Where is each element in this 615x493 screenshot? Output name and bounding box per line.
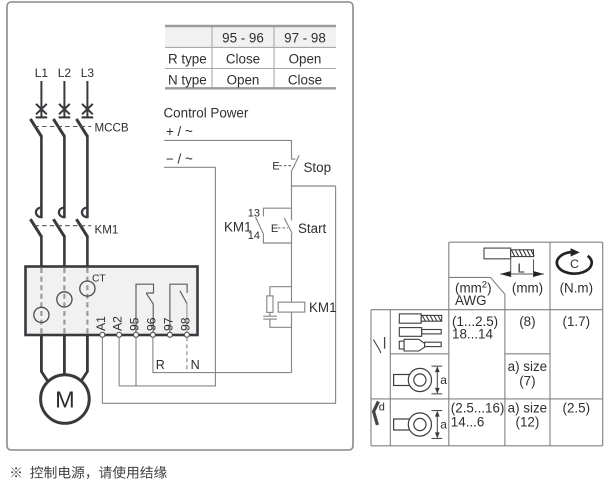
svg-text:14...6: 14...6: [451, 414, 485, 429]
svg-text:+ / ~: + / ~: [166, 124, 193, 139]
svg-text:Control Power: Control Power: [164, 106, 249, 121]
svg-text:Open: Open: [289, 52, 322, 67]
svg-text:L1: L1: [35, 66, 49, 80]
svg-text:13: 13: [248, 208, 260, 220]
svg-text:Open: Open: [227, 73, 260, 88]
svg-text:CT: CT: [92, 273, 106, 284]
svg-text:− / ~: − / ~: [166, 151, 193, 166]
svg-text:AWG: AWG: [455, 293, 487, 308]
svg-text:C: C: [570, 257, 579, 271]
svg-text:(7): (7): [519, 373, 535, 388]
svg-text:(12): (12): [515, 414, 539, 429]
svg-text:(1.7): (1.7): [563, 314, 591, 329]
svg-text:(mm): (mm): [512, 280, 543, 295]
svg-text:a) size: a) size: [508, 401, 547, 416]
svg-text:Stop: Stop: [304, 160, 332, 175]
svg-text:Start: Start: [298, 221, 327, 236]
svg-text:R: R: [156, 358, 165, 372]
svg-text:KM1: KM1: [95, 224, 119, 237]
svg-text:97 - 98: 97 - 98: [284, 31, 326, 46]
svg-text:KM1: KM1: [224, 219, 252, 234]
svg-text:(N.m): (N.m): [560, 280, 593, 295]
svg-text:95: 95: [128, 317, 142, 331]
svg-text:M: M: [55, 387, 75, 413]
svg-text:E: E: [271, 223, 278, 235]
svg-text:(2.5): (2.5): [563, 401, 591, 416]
svg-text:Close: Close: [288, 73, 322, 88]
svg-text:N type: N type: [168, 73, 207, 88]
svg-text:a) size: a) size: [508, 359, 547, 374]
svg-text:N: N: [191, 358, 200, 372]
svg-text:L: L: [518, 260, 525, 275]
svg-text:L2: L2: [58, 66, 72, 80]
svg-text:R type: R type: [168, 52, 207, 67]
svg-text:KM1: KM1: [309, 300, 337, 315]
svg-text:A1: A1: [94, 316, 108, 331]
svg-text:E: E: [272, 161, 279, 173]
svg-text:d: d: [379, 402, 385, 414]
svg-text:MCCB: MCCB: [95, 122, 129, 135]
svg-text:98: 98: [179, 317, 193, 331]
svg-text:Close: Close: [226, 52, 260, 67]
svg-text:L3: L3: [81, 66, 95, 80]
svg-text:97: 97: [162, 317, 176, 331]
svg-text:A2: A2: [111, 316, 125, 331]
svg-text:(2.5...16): (2.5...16): [451, 401, 505, 416]
svg-text:96: 96: [145, 317, 159, 331]
svg-text:a: a: [440, 418, 447, 432]
svg-text:a: a: [440, 373, 447, 387]
svg-text:(8): (8): [519, 314, 535, 329]
svg-text:95 - 96: 95 - 96: [222, 31, 264, 46]
svg-text:18...14: 18...14: [452, 327, 494, 342]
